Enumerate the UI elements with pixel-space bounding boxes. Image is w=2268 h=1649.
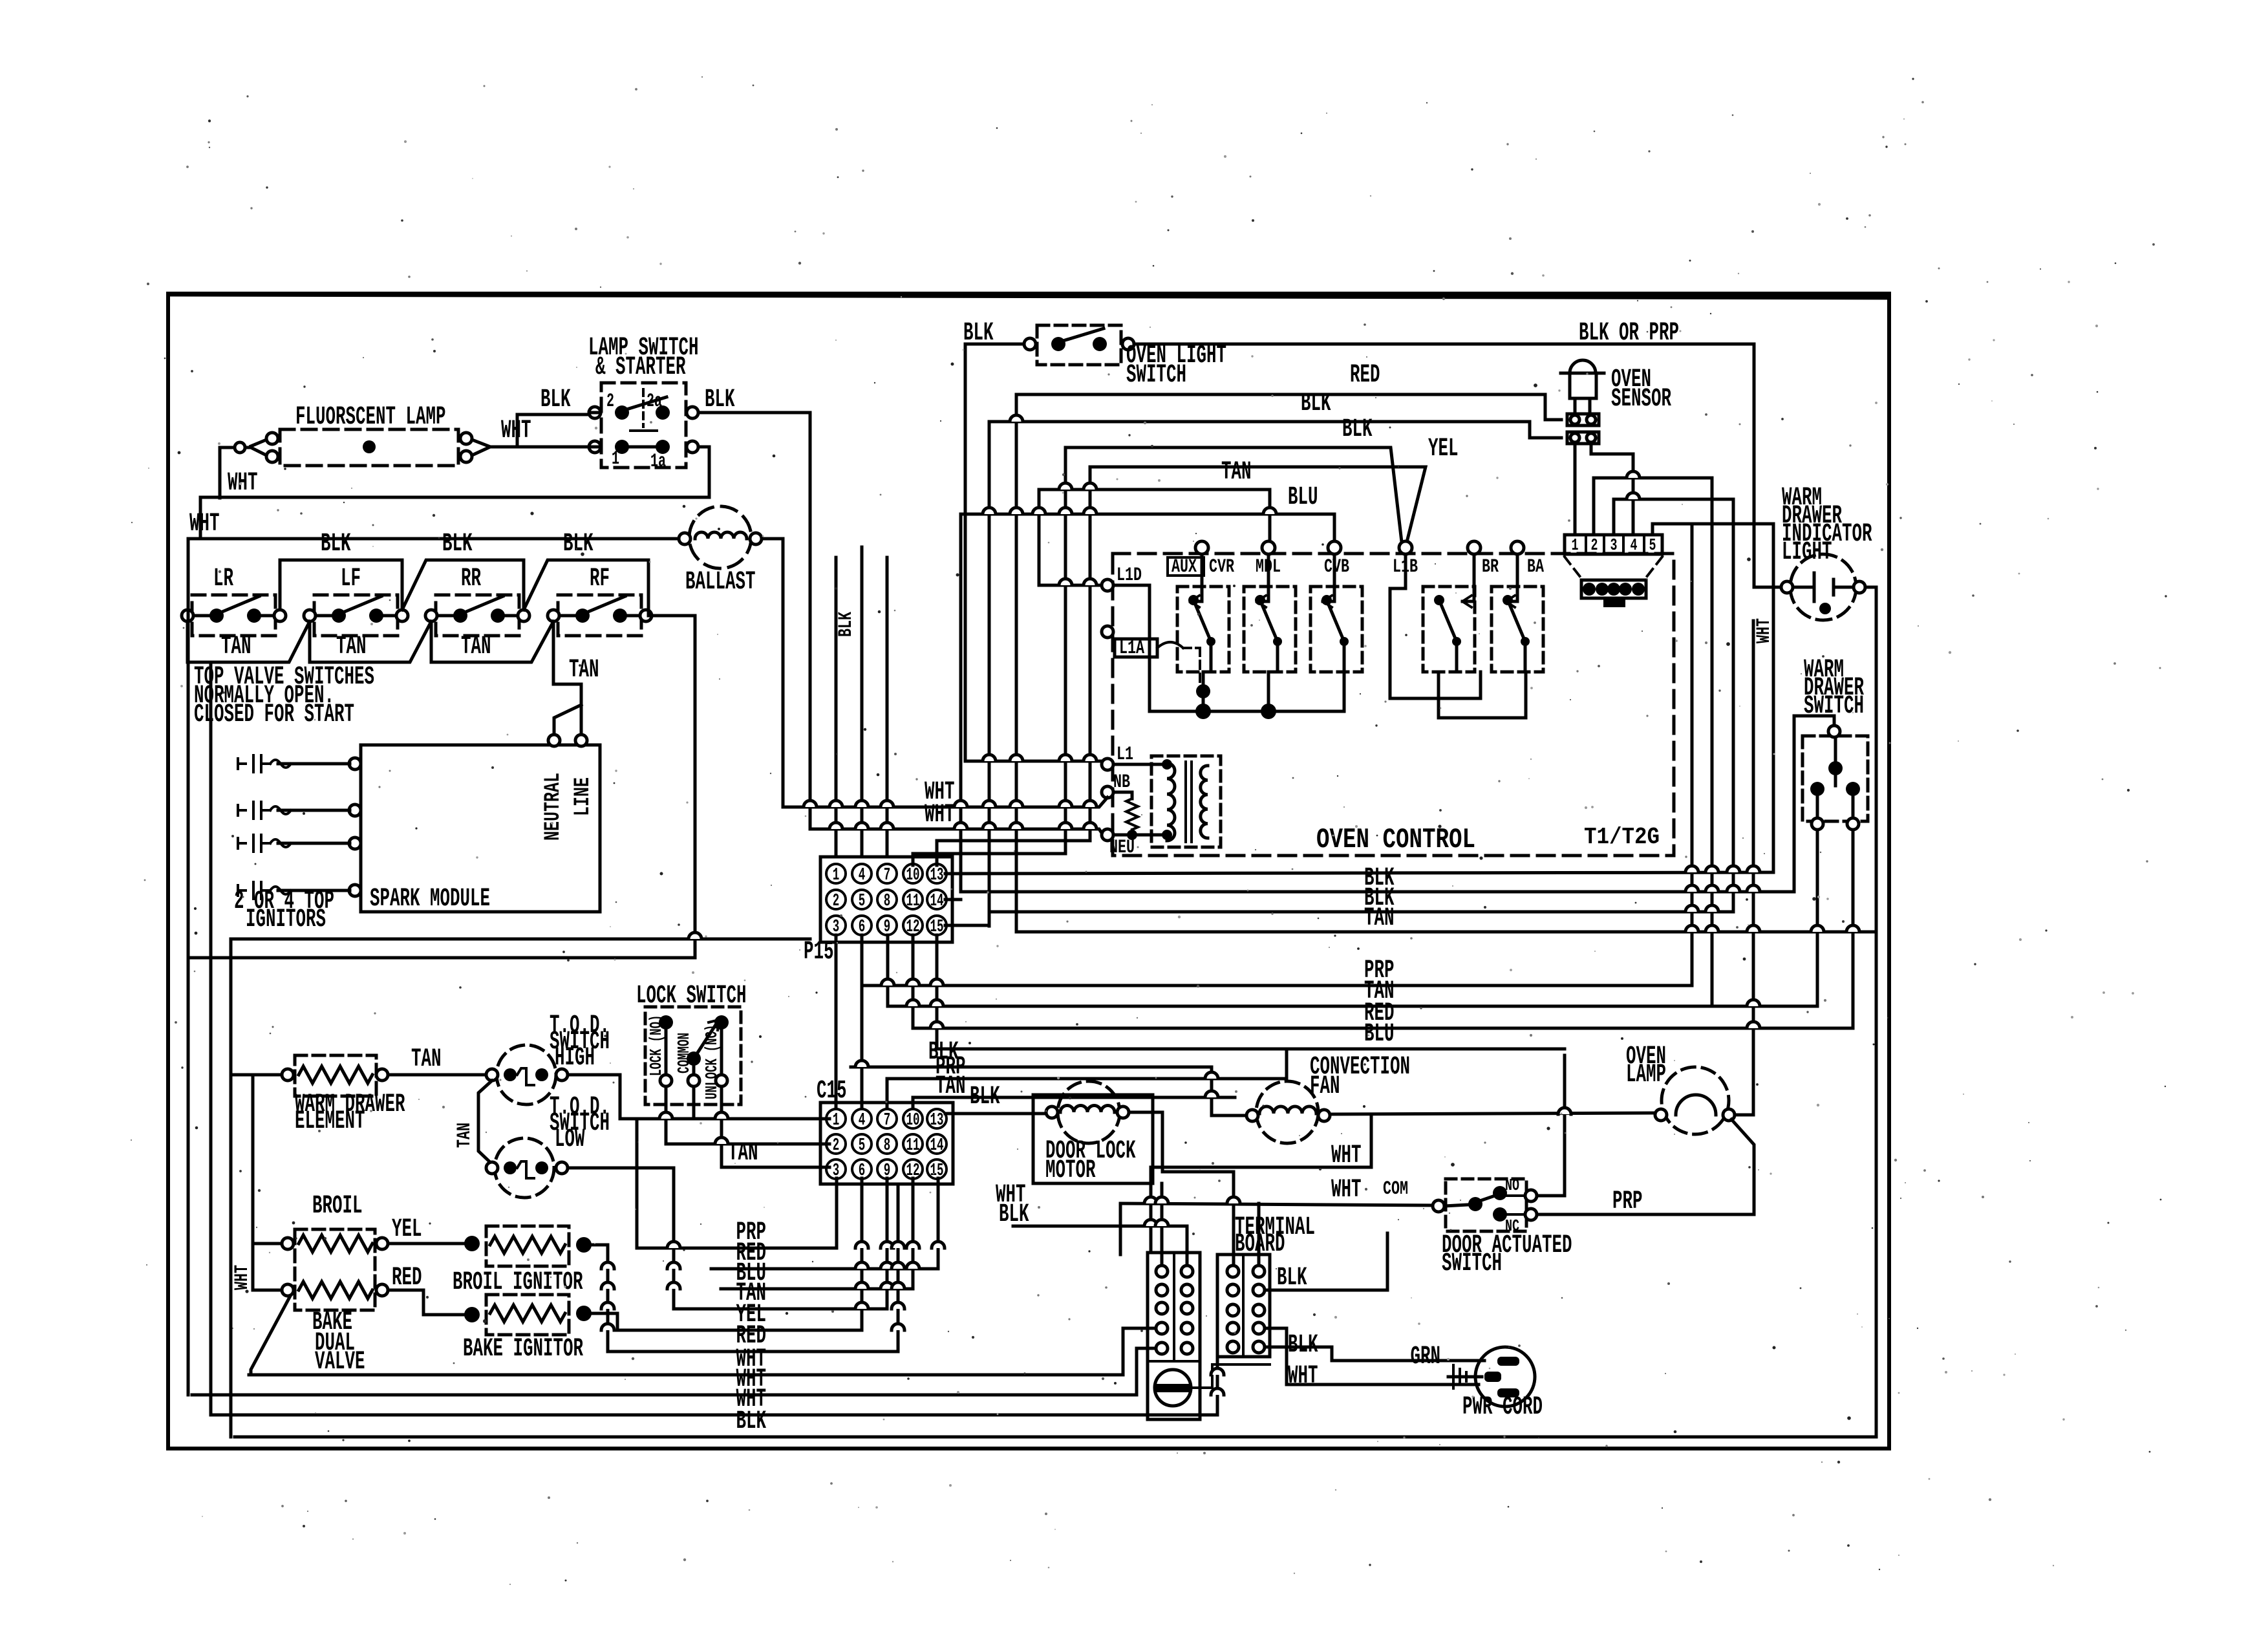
svg-text:WHT: WHT [1331,1176,1362,1205]
svg-text:L1: L1 [1117,744,1133,766]
svg-text:4: 4 [859,866,866,885]
svg-text:COM: COM [1383,1178,1408,1200]
svg-text:5: 5 [859,892,866,911]
svg-text:BAKE IGNITOR: BAKE IGNITOR [463,1335,583,1364]
svg-text:WHT: WHT [925,801,955,830]
svg-text:CLOSED FOR START: CLOSED FOR START [194,700,354,729]
svg-text:BLK: BLK [540,385,571,415]
svg-text:BLK: BLK [970,1083,1000,1112]
svg-text:COMMON: COMMON [674,1033,694,1073]
svg-text:& STARTER: & STARTER [595,353,686,382]
svg-text:NEU: NEU [1109,837,1135,859]
svg-text:BR: BR [1482,556,1499,578]
svg-text:LR: LR [213,565,233,594]
svg-text:P15: P15 [804,938,834,967]
svg-text:BLU: BLU [1288,483,1318,512]
svg-text:WHT: WHT [1288,1362,1318,1391]
svg-text:BLK: BLK [835,612,857,637]
svg-text:PRP: PRP [1612,1187,1643,1216]
svg-text:TAN: TAN [454,1123,476,1148]
svg-text:RED: RED [1350,361,1380,390]
svg-text:MOTOR: MOTOR [1045,1156,1096,1185]
svg-text:WHT: WHT [501,416,531,446]
svg-text:BLK: BLK [705,385,735,415]
svg-text:LAMP: LAMP [1626,1061,1666,1090]
svg-text:13: 13 [930,1111,944,1130]
svg-text:BLK: BLK [736,1407,767,1436]
svg-text:WHT: WHT [1753,618,1775,643]
svg-text:RF: RF [590,565,610,594]
svg-text:4: 4 [859,1111,866,1130]
svg-text:BLK: BLK [563,530,594,559]
svg-text:14: 14 [930,892,944,911]
svg-text:BLK: BLK [1277,1264,1307,1293]
svg-text:2: 2 [833,1136,840,1156]
svg-text:LINE: LINE [571,777,595,816]
svg-text:ELEMENT: ELEMENT [295,1107,365,1136]
svg-text:13: 13 [930,866,944,885]
svg-text:TAN: TAN [411,1045,442,1074]
svg-text:NB: NB [1113,771,1130,793]
svg-text:YEL: YEL [392,1215,422,1244]
svg-text:YEL: YEL [1428,435,1459,464]
svg-text:T1/T2G: T1/T2G [1584,824,1660,850]
svg-text:1: 1 [833,866,840,885]
svg-text:TAN: TAN [221,632,251,662]
svg-text:2a: 2a [647,391,662,413]
svg-text:BLK: BLK [1342,415,1373,444]
svg-text:LF: LF [341,565,361,594]
svg-text:NEUTRAL: NEUTRAL [541,773,566,841]
svg-text:11: 11 [906,1136,920,1156]
svg-text:BLK OR PRP: BLK OR PRP [1579,319,1679,348]
svg-text:SWITCH: SWITCH [1126,361,1186,390]
svg-text:SPARK MODULE: SPARK MODULE [370,885,490,914]
svg-text:SENSOR: SENSOR [1611,385,1671,414]
svg-text:RED: RED [392,1264,422,1293]
svg-text:BLK: BLK [1301,389,1331,418]
svg-text:TAN: TAN [336,632,367,662]
svg-text:OVEN CONTROL: OVEN CONTROL [1316,824,1475,856]
svg-text:NO: NO [1505,1176,1519,1195]
svg-text:BLK: BLK [1288,1331,1318,1360]
svg-text:14: 14 [930,1136,944,1156]
svg-text:10: 10 [906,866,920,885]
svg-text:TAN: TAN [461,632,491,662]
svg-text:WHT: WHT [228,469,258,498]
svg-text:2: 2 [606,391,614,413]
svg-text:L1D: L1D [1117,565,1142,587]
svg-text:VALVE: VALVE [315,1348,365,1377]
svg-text:UNLOCK (NC): UNLOCK (NC) [702,1025,722,1100]
svg-text:11: 11 [906,892,920,911]
svg-text:7: 7 [884,866,891,885]
svg-text:CVB: CVB [1324,556,1349,578]
svg-text:LIGHT: LIGHT [1782,538,1832,567]
svg-text:LOW: LOW [555,1125,585,1154]
svg-text:TAN: TAN [569,656,599,685]
svg-text:BLK: BLK [442,530,473,559]
svg-text:SWITCH: SWITCH [1442,1249,1502,1278]
svg-text:FLUORSCENT LAMP: FLUORSCENT LAMP [295,403,446,432]
svg-text:7: 7 [884,1111,891,1130]
svg-text:BA: BA [1527,556,1544,578]
svg-text:5: 5 [859,1136,866,1156]
svg-text:BALLAST: BALLAST [685,568,756,597]
svg-text:CVR: CVR [1209,556,1234,578]
svg-text:PWR CORD: PWR CORD [1462,1393,1543,1422]
svg-text:TAN: TAN [1364,904,1395,933]
svg-text:IGNITORS: IGNITORS [246,905,326,934]
svg-text:BROIL IGNITOR: BROIL IGNITOR [453,1268,583,1297]
svg-text:8: 8 [884,1136,891,1156]
svg-text:WHT: WHT [231,1265,253,1290]
svg-text:BLK: BLK [321,530,351,559]
svg-text:1: 1 [833,1111,840,1130]
svg-text:1: 1 [612,448,619,470]
svg-text:1a: 1a [650,451,666,473]
svg-text:2: 2 [833,892,840,911]
svg-text:TAN: TAN [728,1139,758,1168]
svg-text:BROIL: BROIL [312,1192,363,1221]
svg-text:8: 8 [884,892,891,911]
svg-text:RR: RR [461,565,481,594]
svg-text:TAN: TAN [1221,458,1252,487]
svg-text:WHT: WHT [189,510,220,539]
svg-text:GRN: GRN [1411,1342,1441,1372]
svg-text:LOCK (NO): LOCK (NO) [647,1015,666,1077]
svg-text:BLU: BLU [1364,1020,1395,1049]
svg-text:L1A: L1A [1119,638,1144,660]
svg-text:10: 10 [906,1111,920,1130]
svg-text:AUX: AUX [1171,556,1197,578]
